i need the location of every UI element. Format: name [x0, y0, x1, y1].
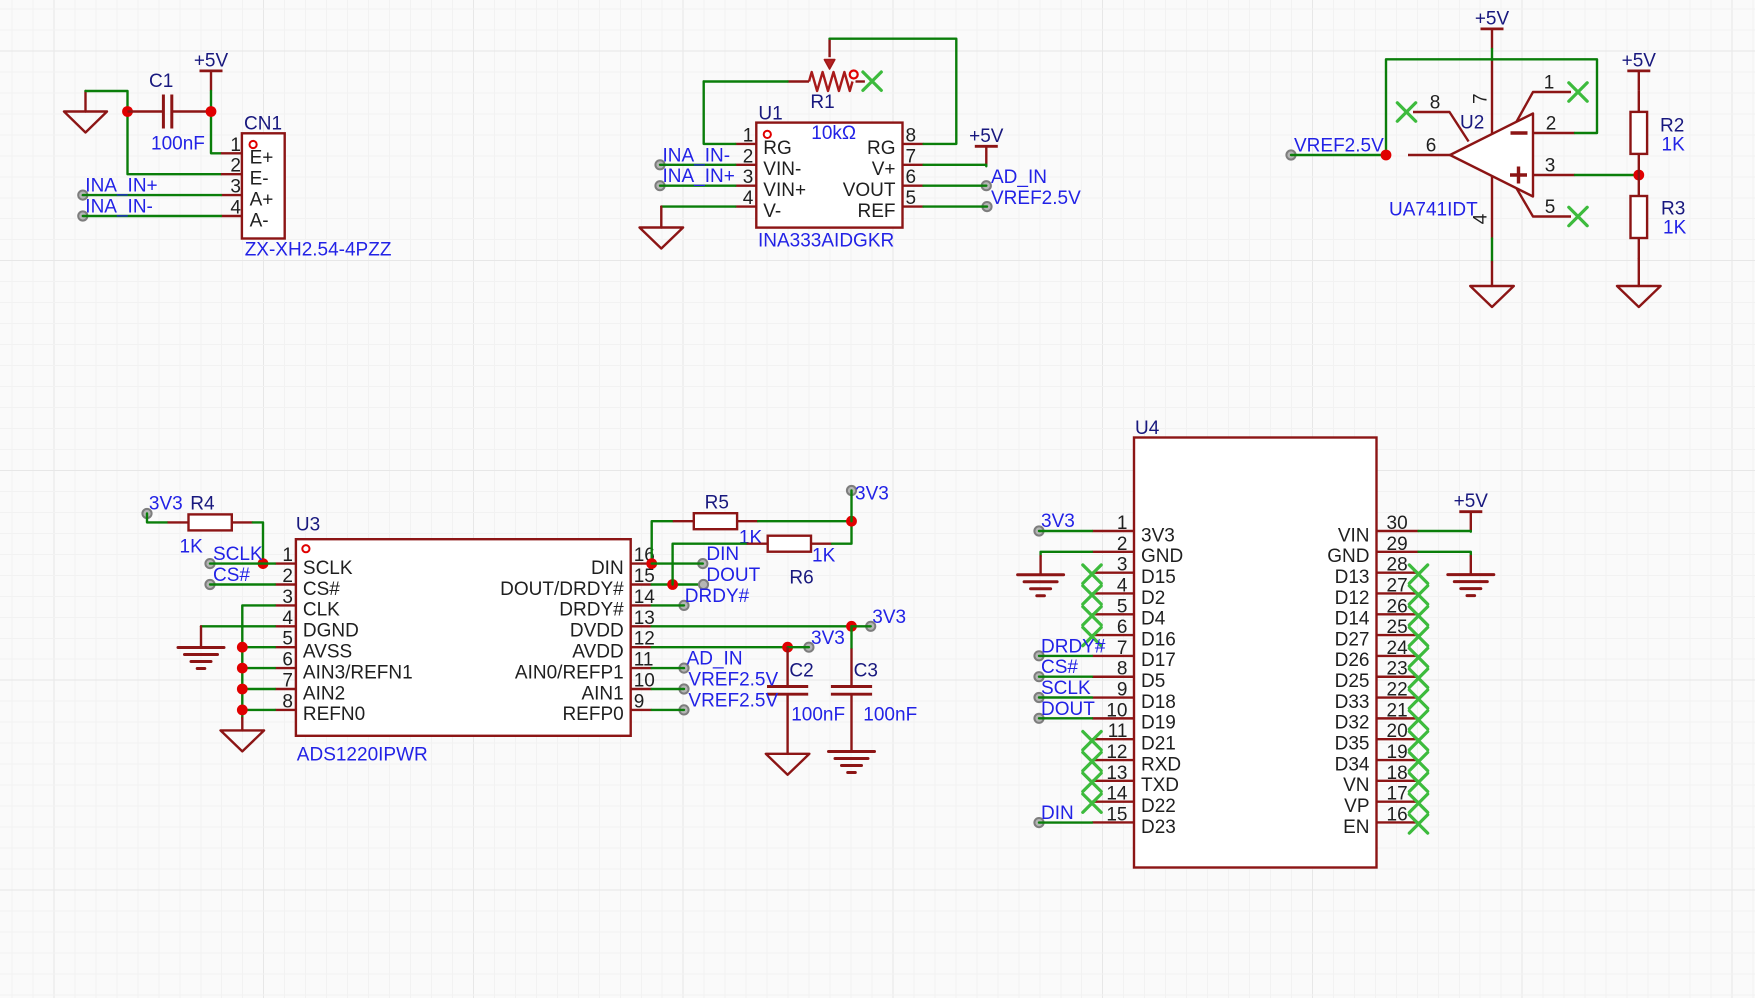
svg-text:SCLK: SCLK	[213, 544, 263, 565]
wire DIN	[652, 562, 703, 564]
svg-text:D23: D23	[1141, 817, 1176, 838]
resistor R4	[168, 514, 253, 530]
svg-text:D35: D35	[1335, 734, 1370, 755]
net port INA_IN+ (U1)	[655, 181, 664, 190]
wire SCLK to U4 pin9	[1039, 696, 1092, 698]
svg-text:8: 8	[282, 691, 293, 712]
svg-text:3: 3	[282, 587, 293, 608]
svg-text:DGND: DGND	[303, 621, 359, 642]
wire INA_IN+ to U1 pin3	[660, 184, 735, 186]
svg-text:SCLK: SCLK	[1041, 678, 1091, 699]
net port VREF2.5V (U3 pin10)	[679, 684, 688, 693]
wire DRDY# to U4 pin7	[1039, 655, 1092, 657]
svg-text:D21: D21	[1141, 734, 1176, 755]
svg-text:D34: D34	[1335, 754, 1370, 775]
junction DVDD node	[846, 621, 857, 632]
svg-text:D25: D25	[1335, 671, 1370, 692]
no-connect X on U4 pin26	[1409, 607, 1427, 625]
svg-text:7: 7	[282, 671, 293, 692]
svg-text:CS#: CS#	[213, 565, 250, 586]
svg-text:INA333AIDGKR: INA333AIDGKR	[758, 231, 894, 252]
svg-text:REFN0: REFN0	[303, 704, 365, 725]
svg-text:12: 12	[1106, 742, 1127, 763]
svg-text:1: 1	[282, 545, 293, 566]
wire VREF2.5V to U3 pin10	[652, 688, 684, 690]
svg-text:AVDD: AVDD	[572, 642, 623, 663]
wire to U3 pin6	[242, 667, 275, 669]
no-connect X on U2 pin1	[1569, 83, 1587, 101]
net port DRDY# (U4)	[1034, 651, 1043, 660]
svg-text:D16: D16	[1141, 629, 1176, 650]
svg-text:CS#: CS#	[303, 579, 340, 600]
wire R4 to SCLK node	[253, 522, 263, 563]
svg-text:REFP0: REFP0	[562, 704, 623, 725]
svg-text:15: 15	[1106, 804, 1127, 825]
svg-text:+5V: +5V	[1475, 8, 1510, 29]
net port 3V3 (AVDD)	[804, 643, 813, 652]
svg-text:V+: V+	[872, 159, 896, 180]
junction SCLK node	[258, 558, 269, 569]
capacitor C2	[767, 647, 808, 754]
wire to U3 pin8	[242, 709, 275, 711]
svg-text:4: 4	[282, 608, 293, 629]
op-amp U2 UA741 body	[1408, 60, 1575, 239]
svg-text:GND: GND	[1141, 546, 1183, 567]
no-connect X on U4 pin20	[1409, 732, 1427, 750]
svg-text:D4: D4	[1141, 609, 1166, 630]
svg-text:4: 4	[230, 198, 241, 219]
svg-text:AIN0/REFP1: AIN0/REFP1	[515, 662, 624, 683]
no-connect X on U4 pin4	[1083, 586, 1101, 604]
svg-text:D18: D18	[1141, 692, 1176, 713]
svg-text:RXD: RXD	[1141, 754, 1181, 775]
svg-text:D19: D19	[1141, 713, 1176, 734]
net port CS# (U4)	[1034, 672, 1043, 681]
wire U1 pin4 to gnd	[661, 205, 735, 207]
svg-text:100nF: 100nF	[791, 705, 845, 726]
wire 3V3 to U4 pin1	[1039, 530, 1092, 532]
wire DOUT	[652, 583, 704, 585]
+5V power flag PWR4	[1622, 50, 1657, 91]
svg-text:9: 9	[634, 691, 645, 712]
svg-text:RG: RG	[763, 138, 792, 159]
svg-text:GND: GND	[1327, 546, 1369, 567]
capacitor C3	[831, 649, 872, 752]
svg-text:1: 1	[1544, 73, 1555, 94]
resistor R5	[673, 513, 758, 529]
wire to U3 pin5 AVSS	[242, 646, 275, 648]
svg-text:7: 7	[1470, 93, 1491, 104]
+5V power flag PWR2	[969, 126, 1004, 167]
svg-text:TXD: TXD	[1141, 775, 1179, 796]
svg-text:INA_IN+: INA_IN+	[663, 166, 735, 187]
no-connect X on U4 pin24	[1409, 648, 1427, 666]
no-connect X on U4 pin22	[1409, 690, 1427, 708]
svg-text:INA_IN-: INA_IN-	[85, 197, 153, 218]
ground GND5 bars	[178, 648, 224, 669]
ground GND6	[241, 718, 243, 731]
ground GND4	[1617, 286, 1661, 307]
svg-text:3V3: 3V3	[149, 494, 183, 515]
svg-text:R2: R2	[1660, 116, 1684, 137]
svg-text:VN: VN	[1343, 775, 1369, 796]
ground GND8 (earth)	[829, 752, 875, 773]
svg-text:C3: C3	[854, 661, 878, 682]
svg-text:VREF2.5V: VREF2.5V	[991, 188, 1081, 209]
net port DIN (U4)	[1034, 818, 1043, 827]
net port DOUT (U3)	[699, 580, 708, 589]
svg-text:4: 4	[743, 188, 754, 209]
svg-text:D33: D33	[1335, 692, 1370, 713]
net port 3V3 (top)	[847, 486, 856, 495]
svg-text:U3: U3	[296, 515, 320, 536]
svg-text:4: 4	[1117, 575, 1128, 596]
wire VREF2.5V to U3 pin9	[652, 709, 684, 711]
wire +5V to CN1 pin1	[211, 91, 221, 153]
svg-text:5: 5	[906, 188, 917, 209]
svg-text:AD_IN: AD_IN	[687, 649, 743, 670]
svg-text:3V3: 3V3	[872, 607, 906, 628]
svg-text:A-: A-	[250, 210, 269, 231]
no-connect X on U4 pin17	[1409, 794, 1427, 812]
svg-text:24: 24	[1387, 638, 1409, 659]
svg-text:AIN1: AIN1	[581, 683, 623, 704]
junction R2/R3 node	[1633, 170, 1644, 181]
wire to 3V3 port AVDD	[788, 646, 809, 648]
no-connect X on U4 pin28	[1409, 565, 1427, 583]
ground GND9 bars	[1018, 575, 1064, 596]
wire U4 pin29 GND	[1419, 552, 1471, 556]
wire U3 pin4 DGND to gnd	[201, 625, 275, 627]
wire DRDY#	[652, 604, 684, 606]
svg-text:9: 9	[1117, 680, 1128, 701]
wire U3 pin13 DVDD to 3V3	[652, 625, 852, 627]
ground GND10 bars	[1448, 575, 1494, 596]
svg-text:3V3: 3V3	[811, 628, 845, 649]
wire INA_IN- to CN1 pin4	[83, 215, 221, 217]
junction node A	[122, 106, 133, 117]
svg-text:R1: R1	[810, 92, 834, 113]
resistor R3	[1631, 175, 1648, 259]
svg-text:28: 28	[1387, 555, 1408, 576]
svg-text:DIN: DIN	[706, 544, 739, 565]
svg-text:2: 2	[1546, 114, 1557, 135]
no-connect X on U4 pin18	[1409, 773, 1427, 791]
svg-text:26: 26	[1387, 596, 1408, 617]
svg-text:E+: E+	[250, 148, 274, 169]
svg-text:D5: D5	[1141, 671, 1165, 692]
net port AD_IN (U1)	[982, 181, 991, 190]
wire gnd to node A	[86, 91, 128, 112]
no-connect X on U4 pin19	[1409, 752, 1427, 770]
net port VREF2.5V (U1)	[982, 202, 991, 211]
svg-text:D15: D15	[1141, 567, 1176, 588]
op-amp U1 INA333 body	[735, 123, 923, 228]
svg-text:CN1: CN1	[244, 114, 282, 135]
junction node B	[206, 106, 217, 117]
ground GND5 (earth)	[200, 626, 202, 647]
net port INA_IN- (CN1)	[78, 211, 87, 220]
svg-text:C1: C1	[149, 71, 173, 92]
net port INA_IN+ (CN1)	[78, 191, 87, 200]
svg-text:UA741IDT: UA741IDT	[1389, 200, 1478, 221]
svg-text:6: 6	[1426, 136, 1437, 157]
wire feedback loop U2	[1386, 59, 1597, 155]
svg-text:6: 6	[906, 167, 917, 188]
svg-text:8: 8	[906, 125, 917, 146]
net port SCLK (U3)	[205, 559, 214, 568]
svg-text:DOUT: DOUT	[1041, 699, 1095, 720]
svg-text:D2: D2	[1141, 588, 1165, 609]
wire to 3V3 port	[852, 625, 871, 627]
svg-text:+5V: +5V	[969, 126, 1004, 147]
wire 3V3 port down	[850, 491, 852, 522]
wire AD_IN to U3 pin11	[652, 667, 684, 669]
wire node A to CN1 pin2	[128, 112, 221, 175]
wire DOUT to U4 pin10	[1039, 717, 1092, 719]
no-connect X on U4 pin14	[1083, 794, 1101, 812]
svg-text:DOUT: DOUT	[706, 565, 760, 586]
wire R1 wiper to U1 pin8	[830, 39, 957, 144]
svg-text:3: 3	[743, 167, 754, 188]
svg-text:3: 3	[1117, 555, 1128, 576]
svg-text:19: 19	[1387, 742, 1408, 763]
svg-text:22: 22	[1387, 680, 1408, 701]
svg-text:V-: V-	[763, 201, 781, 222]
svg-text:RG: RG	[867, 138, 896, 159]
wire U2 pin3 to R2/R3 node	[1575, 174, 1639, 176]
svg-text:VIN: VIN	[1338, 525, 1370, 546]
ground GND1	[84, 91, 86, 112]
net port DOUT (U4)	[1034, 714, 1043, 723]
wire INA_IN+ to CN1 pin3	[83, 194, 221, 196]
svg-text:7: 7	[906, 146, 917, 167]
wire R3 to gnd	[1638, 259, 1640, 286]
net port VREF2.5V (U3 pin9)	[679, 705, 688, 714]
svg-text:R6: R6	[789, 568, 813, 589]
svg-text:DRDY#: DRDY#	[559, 600, 624, 621]
svg-text:D13: D13	[1335, 567, 1370, 588]
wire R1 left	[704, 80, 788, 82]
svg-text:3V3: 3V3	[855, 484, 889, 505]
svg-text:1K: 1K	[739, 528, 763, 549]
resistor R6	[747, 536, 832, 552]
svg-text:30: 30	[1387, 513, 1408, 534]
ground GND9 (earth)	[1039, 556, 1041, 575]
+5V power flag PWR3	[1475, 8, 1510, 49]
wire to U1 pin1	[704, 82, 736, 144]
svg-text:8: 8	[1430, 93, 1441, 114]
+5V power flag PWR5	[1454, 491, 1489, 532]
wire +5V to U2 pin7	[1491, 49, 1493, 60]
svg-text:+5V: +5V	[194, 50, 229, 71]
+5V power flag PWR1	[194, 50, 229, 91]
svg-text:D32: D32	[1335, 713, 1370, 734]
no-connect X on U4 pin3	[1083, 565, 1101, 583]
svg-text:ADS1220IPWR: ADS1220IPWR	[297, 745, 428, 766]
wire to U3 pin7	[242, 688, 275, 690]
svg-text:29: 29	[1387, 534, 1408, 555]
net port 3V3 (U4 pin1)	[1034, 526, 1043, 535]
no-connect X on U2 pin5	[1569, 207, 1587, 225]
wire U1 pin5 REF to VREF2.5V	[924, 205, 988, 207]
net port 3V3 (R4)	[142, 509, 151, 518]
wire U3 pin3 CLK down	[242, 605, 275, 717]
wire U1 pin6 VOUT to AD_IN	[924, 184, 987, 186]
svg-text:E-: E-	[250, 169, 269, 190]
svg-text:D12: D12	[1335, 588, 1370, 609]
svg-text:5: 5	[1545, 197, 1556, 218]
wire CS# to U3 pin2	[210, 583, 275, 585]
svg-text:EN: EN	[1343, 817, 1369, 838]
svg-text:R3: R3	[1661, 199, 1685, 220]
no-connect X on U4 pin23	[1409, 669, 1427, 687]
svg-text:U4: U4	[1135, 418, 1160, 439]
svg-text:5: 5	[282, 629, 293, 650]
svg-text:1K: 1K	[180, 537, 204, 558]
svg-text:AIN3/REFN1: AIN3/REFN1	[303, 662, 413, 683]
net port SCLK (U4)	[1034, 693, 1043, 702]
capacitor C1	[128, 95, 212, 129]
svg-text:D26: D26	[1335, 650, 1370, 671]
svg-text:1: 1	[1117, 513, 1128, 534]
svg-text:10kΩ: 10kΩ	[811, 123, 856, 144]
wire VREF2.5V to U2 pin6	[1291, 154, 1386, 156]
wire DOUT up to R6	[673, 544, 747, 585]
junction DIN node	[646, 558, 657, 569]
svg-text:1K: 1K	[812, 546, 836, 567]
svg-text:7: 7	[1117, 638, 1128, 659]
wire U3 pin12 AVDD to 3V3	[652, 646, 788, 648]
wire U2 pin4 to gnd	[1491, 239, 1493, 263]
svg-text:20: 20	[1387, 721, 1408, 742]
wire CS# to U4 pin8	[1039, 676, 1092, 678]
svg-text:INA_IN-: INA_IN-	[663, 145, 731, 166]
svg-text:+5V: +5V	[1622, 50, 1657, 71]
svg-text:11: 11	[1108, 721, 1128, 742]
ground GND2	[660, 207, 662, 228]
svg-text:R5: R5	[705, 493, 729, 514]
svg-text:3: 3	[1545, 156, 1556, 177]
svg-text:+5V: +5V	[1454, 491, 1489, 512]
svg-text:D22: D22	[1141, 796, 1176, 817]
wire +5V to U1 pin7	[924, 165, 987, 167]
wire U3 pin16 up to R5	[652, 521, 673, 563]
junction pin8	[237, 705, 248, 716]
svg-text:AVSS: AVSS	[303, 642, 352, 663]
svg-text:1K: 1K	[1663, 218, 1687, 239]
no-connect X on U4 pin25	[1409, 627, 1427, 645]
svg-text:VIN-: VIN-	[763, 159, 801, 180]
svg-text:AIN2: AIN2	[303, 683, 345, 704]
svg-text:VREF2.5V: VREF2.5V	[688, 691, 778, 712]
connector CN1	[221, 133, 285, 238]
wire R5 to 3V3 node	[758, 520, 851, 522]
svg-text:DIN: DIN	[591, 558, 624, 579]
svg-text:R4: R4	[190, 494, 215, 515]
net port DIN (U3)	[698, 559, 707, 568]
wire DIN to U4 pin15	[1039, 821, 1092, 823]
no-connect X on U2 pin8	[1397, 103, 1415, 121]
svg-text:DIN: DIN	[1041, 803, 1074, 824]
svg-text:SCLK: SCLK	[303, 558, 353, 579]
no-connect X on U4 pin27	[1409, 586, 1427, 604]
wire SCLK to U3 pin1	[210, 562, 275, 564]
net port INA_IN- (U1)	[655, 160, 664, 169]
svg-text:DRDY#: DRDY#	[685, 586, 750, 607]
svg-text:5: 5	[1117, 596, 1128, 617]
svg-text:C2: C2	[789, 661, 813, 682]
svg-text:D14: D14	[1335, 609, 1370, 630]
svg-text:3: 3	[230, 177, 241, 198]
svg-text:VREF2.5V: VREF2.5V	[688, 670, 778, 691]
svg-text:8: 8	[1117, 659, 1128, 680]
svg-text:3V3: 3V3	[1041, 511, 1075, 532]
svg-text:DOUT/DRDY#: DOUT/DRDY#	[500, 579, 624, 600]
svg-text:VP: VP	[1344, 796, 1369, 817]
svg-text:INA_IN+: INA_IN+	[85, 176, 157, 197]
svg-text:D17: D17	[1141, 650, 1176, 671]
svg-text:25: 25	[1387, 617, 1408, 638]
svg-text:DRDY#: DRDY#	[1041, 636, 1106, 657]
svg-text:VOUT: VOUT	[843, 180, 896, 201]
svg-text:U2: U2	[1460, 113, 1484, 134]
IC U4 module body	[1092, 438, 1419, 868]
svg-text:3V3: 3V3	[1141, 525, 1175, 546]
svg-text:16: 16	[1387, 804, 1408, 825]
net port CS# (U3)	[205, 580, 214, 589]
svg-text:D27: D27	[1335, 629, 1370, 650]
svg-text:21: 21	[1387, 700, 1408, 721]
no-connect X on U4 pin13	[1083, 773, 1101, 791]
svg-text:U1: U1	[758, 104, 782, 125]
svg-text:100nF: 100nF	[151, 134, 205, 155]
IC U3 ADS1220 body	[275, 539, 655, 736]
svg-text:27: 27	[1387, 575, 1408, 596]
junction pin6	[237, 663, 248, 674]
no-connect X on U4 pin5	[1083, 607, 1101, 625]
svg-text:DVDD: DVDD	[570, 621, 624, 642]
net port 3V3 (DVDD)	[866, 622, 875, 631]
svg-text:6: 6	[1117, 617, 1128, 638]
svg-text:VREF2.5V: VREF2.5V	[1294, 136, 1384, 157]
svg-text:1: 1	[743, 125, 754, 146]
svg-text:ZX-XH2.54-4PZZ: ZX-XH2.54-4PZZ	[245, 240, 392, 261]
net port DRDY# (U3)	[679, 601, 688, 610]
svg-text:1: 1	[230, 135, 241, 156]
svg-text:17: 17	[1387, 784, 1408, 805]
wire 3V3 node down to C3	[850, 626, 852, 648]
svg-text:2: 2	[1117, 534, 1128, 555]
junction AVDD node	[782, 642, 793, 653]
svg-text:AD_IN: AD_IN	[991, 167, 1047, 188]
wire U4 pin2 GND	[1041, 552, 1092, 556]
svg-text:CLK: CLK	[303, 600, 340, 621]
svg-text:18: 18	[1387, 763, 1408, 784]
svg-text:2: 2	[743, 146, 754, 167]
net port VREF2.5V (U2)	[1286, 150, 1295, 159]
potentiometer R1	[788, 39, 865, 91]
svg-text:14: 14	[1106, 784, 1128, 805]
svg-text:CS#: CS#	[1041, 657, 1078, 678]
svg-text:A+: A+	[250, 189, 274, 210]
svg-text:6: 6	[282, 650, 293, 671]
junction VREF node	[1381, 150, 1392, 161]
svg-text:VIN+: VIN+	[763, 180, 806, 201]
ground GND3	[1491, 262, 1493, 286]
svg-text:11: 11	[634, 650, 654, 671]
no-connect X on U4 pin11	[1083, 732, 1101, 750]
